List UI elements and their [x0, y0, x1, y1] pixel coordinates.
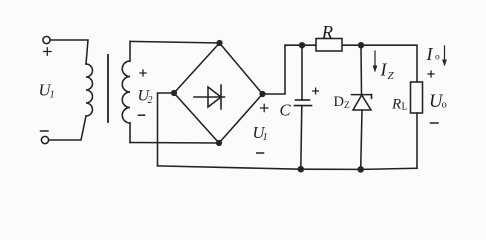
svg-text:D: D — [334, 94, 344, 110]
svg-text:Z: Z — [344, 101, 350, 111]
svg-text:I: I — [426, 44, 434, 64]
svg-text:1: 1 — [50, 90, 55, 101]
svg-text:1: 1 — [263, 132, 268, 143]
svg-text:I: I — [380, 60, 388, 80]
svg-text:L: L — [402, 102, 408, 113]
svg-text:R: R — [391, 97, 401, 113]
svg-text:o: o — [435, 53, 440, 63]
svg-text:Z: Z — [388, 70, 395, 82]
svg-text:2: 2 — [148, 95, 153, 106]
svg-text:R: R — [321, 24, 333, 44]
svg-text:C: C — [280, 101, 292, 120]
svg-text:o: o — [442, 100, 447, 111]
